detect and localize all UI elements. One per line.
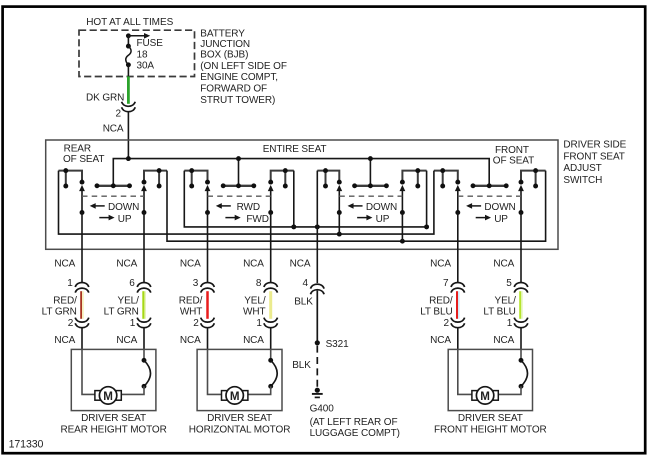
svg-text:RWD: RWD xyxy=(237,202,260,213)
wire NCA to switch xyxy=(127,112,129,159)
fuse label xyxy=(137,38,164,71)
svg-text:REAR HEIGHT MOTOR: REAR HEIGHT MOTOR xyxy=(60,424,166,435)
svg-text:6: 6 xyxy=(129,278,135,289)
svg-text:1: 1 xyxy=(507,318,513,329)
svg-text:18: 18 xyxy=(137,50,148,61)
svg-text:LT BLU: LT BLU xyxy=(483,306,515,317)
svg-text:LT GRN: LT GRN xyxy=(42,306,77,317)
battery junction box (BJB) dashed box xyxy=(79,30,195,76)
direction labels group3 xyxy=(348,202,398,225)
switch pole group3 right xyxy=(400,168,427,215)
diagram number 171330 xyxy=(9,438,44,450)
inline connector pin 2 xyxy=(116,102,136,120)
svg-text:HORIZONTAL MOTOR: HORIZONTAL MOTOR xyxy=(189,424,291,435)
switch name text xyxy=(563,140,626,186)
svg-text:1: 1 xyxy=(256,318,262,329)
svg-text:NCA: NCA xyxy=(116,335,137,346)
ground G400 xyxy=(312,388,323,398)
label REAR OF SEAT xyxy=(63,144,104,166)
svg-text:HOT AT ALL TIMES: HOT AT ALL TIMES xyxy=(86,17,173,28)
motor M2 internals xyxy=(208,349,278,404)
switch pole group2 left xyxy=(184,168,210,215)
svg-text:DRIVER SEAT: DRIVER SEAT xyxy=(207,413,272,424)
switch pole group2 right xyxy=(268,168,294,215)
bus: group1/4 right outers + entire-seat right wiper xyxy=(167,171,546,244)
direction labels group4 xyxy=(466,202,516,225)
svg-text:DK GRN: DK GRN xyxy=(86,92,124,103)
svg-text:M: M xyxy=(480,390,490,403)
svg-text:(ON LEFT SIDE OF: (ON LEFT SIDE OF xyxy=(200,61,287,72)
output wire pin 6 xyxy=(104,213,151,350)
svg-text:7: 7 xyxy=(443,278,449,289)
svg-text:BATTERY: BATTERY xyxy=(200,29,245,40)
svg-text:FORWARD OF: FORWARD OF xyxy=(200,83,267,94)
label FRONT OF SEAT xyxy=(493,145,534,167)
svg-text:NCA: NCA xyxy=(180,258,201,269)
wire DK GRN (green) xyxy=(127,76,130,103)
svg-text:LUGGAGE COMPT): LUGGAGE COMPT) xyxy=(310,428,400,439)
svg-text:DOWN: DOWN xyxy=(366,202,397,213)
svg-text:NCA: NCA xyxy=(243,258,264,269)
label NCA xyxy=(103,124,124,135)
svg-text:OF SEAT: OF SEAT xyxy=(493,156,534,167)
motor M2 label xyxy=(189,413,291,436)
svg-text:3: 3 xyxy=(193,278,199,289)
motor box M2 xyxy=(197,349,282,410)
output wire pin 5 xyxy=(483,213,527,350)
svg-text:2: 2 xyxy=(193,318,199,329)
svg-text:NCA: NCA xyxy=(290,258,311,269)
driver side front seat adjust switch box xyxy=(46,140,558,249)
mechanical coupling group3 xyxy=(339,195,402,197)
svg-text:BOX (BJB): BOX (BJB) xyxy=(200,49,248,60)
svg-text:LT GRN: LT GRN xyxy=(104,306,139,317)
svg-text:NCA: NCA xyxy=(493,258,514,269)
svg-text:JUNCTION: JUNCTION xyxy=(200,39,250,50)
fuse 18 30A xyxy=(126,44,131,68)
motor M3 label xyxy=(434,413,547,436)
svg-text:ADJUST: ADJUST xyxy=(563,163,601,174)
svg-text:FRONT HEIGHT MOTOR: FRONT HEIGHT MOTOR xyxy=(434,424,547,435)
label ENTIRE SEAT xyxy=(263,144,327,155)
wire: fuse to BJB bottom xyxy=(127,65,129,77)
svg-text:DOWN: DOWN xyxy=(484,202,515,213)
direction labels group1 xyxy=(90,202,140,225)
switch pole group1 left xyxy=(59,168,85,215)
svg-text:YEL/: YEL/ xyxy=(118,295,140,306)
svg-text:M: M xyxy=(103,390,113,403)
svg-text:DRIVER SEAT: DRIVER SEAT xyxy=(458,413,523,424)
switch pole group4 left xyxy=(434,168,461,215)
svg-text:FRONT SEAT: FRONT SEAT xyxy=(563,151,624,162)
svg-text:BLK: BLK xyxy=(294,296,313,307)
feed contact bar group2 xyxy=(221,183,257,188)
svg-text:30A: 30A xyxy=(137,60,155,71)
splice S321 xyxy=(315,339,349,350)
svg-text:DRIVER SEAT: DRIVER SEAT xyxy=(81,413,146,424)
label HOT AT ALL TIMES xyxy=(86,17,173,28)
switch pole group1 right xyxy=(141,168,167,215)
svg-text:FRONT: FRONT xyxy=(495,145,529,156)
svg-text:NCA: NCA xyxy=(430,258,451,269)
svg-text:G400: G400 xyxy=(310,404,335,415)
svg-text:1: 1 xyxy=(130,318,136,329)
svg-text:S321: S321 xyxy=(326,339,349,350)
motor M3 internals xyxy=(458,349,528,404)
svg-text:2: 2 xyxy=(68,318,74,329)
svg-text:2: 2 xyxy=(116,109,122,120)
node: hot feed tap with arrow xyxy=(126,33,150,46)
ground wire pin 4 BLK xyxy=(290,258,324,340)
svg-text:FUSE: FUSE xyxy=(137,38,164,49)
svg-text:NCA: NCA xyxy=(54,335,75,346)
switch pole group4 right xyxy=(518,168,546,215)
svg-text:STRUT TOWER): STRUT TOWER) xyxy=(200,95,275,106)
svg-text:YEL/: YEL/ xyxy=(495,295,517,306)
svg-text:LT BLU: LT BLU xyxy=(420,306,452,317)
svg-text:NCA: NCA xyxy=(116,258,137,269)
wire BLK to ground (dashed) xyxy=(292,346,317,388)
feed contact bar group3 xyxy=(352,183,389,188)
svg-text:2: 2 xyxy=(444,318,450,329)
svg-text:NCA: NCA xyxy=(243,335,264,346)
svg-text:(AT LEFT REAR OF: (AT LEFT REAR OF xyxy=(310,417,398,428)
wire: entire-seat left wiper to bus xyxy=(338,213,340,235)
svg-text:NCA: NCA xyxy=(430,335,451,346)
bus: ground rail xyxy=(184,171,429,230)
direction labels group2 xyxy=(216,202,269,225)
svg-text:ENGINE COMPT,: ENGINE COMPT, xyxy=(200,72,278,83)
svg-text:171330: 171330 xyxy=(9,438,44,450)
svg-text:M: M xyxy=(230,390,240,403)
svg-text:YEL/: YEL/ xyxy=(244,295,266,306)
output wire pin 1 xyxy=(42,213,89,350)
svg-text:OF SEAT: OF SEAT xyxy=(63,154,104,165)
wire: ground drop from switch xyxy=(316,171,318,283)
svg-text:REAR: REAR xyxy=(64,144,91,155)
svg-text:NCA: NCA xyxy=(493,335,514,346)
svg-text:NCA: NCA xyxy=(54,258,75,269)
svg-text:DOWN: DOWN xyxy=(108,202,139,213)
svg-text:UP: UP xyxy=(118,214,132,225)
output wire pin 8 xyxy=(243,213,277,350)
svg-text:UP: UP xyxy=(494,214,508,225)
label DK GRN xyxy=(86,92,124,103)
bus: group1/4 left outers + entire-seat left wiper xyxy=(59,171,434,237)
svg-text:1: 1 xyxy=(67,278,73,289)
svg-text:NCA: NCA xyxy=(103,124,124,135)
svg-text:WHT: WHT xyxy=(180,306,202,317)
mechanical coupling group1 xyxy=(82,195,144,197)
svg-text:WHT: WHT xyxy=(243,306,265,317)
BJB note text xyxy=(200,29,287,106)
svg-text:DRIVER SIDE: DRIVER SIDE xyxy=(563,140,626,151)
svg-text:5: 5 xyxy=(506,278,512,289)
svg-text:RED/: RED/ xyxy=(179,295,203,306)
svg-text:ENTIRE SEAT: ENTIRE SEAT xyxy=(263,144,327,155)
output wire pin 7 xyxy=(420,213,464,350)
motor M1 label xyxy=(60,413,166,436)
feed contact bar group1 xyxy=(95,183,132,188)
motor box M3 xyxy=(448,349,532,410)
svg-text:NCA: NCA xyxy=(180,335,201,346)
mechanical coupling group2 xyxy=(208,195,271,197)
mechanical coupling group4 xyxy=(458,195,521,197)
svg-text:RED/: RED/ xyxy=(53,295,77,306)
ground labels xyxy=(310,404,400,440)
wire: entire-seat right wiper to bus xyxy=(401,213,403,242)
svg-text:UP: UP xyxy=(376,214,390,225)
svg-text:FWD: FWD xyxy=(246,214,268,225)
motor box M1 xyxy=(71,349,156,410)
svg-text:SWITCH: SWITCH xyxy=(563,175,602,186)
output wire pin 3 xyxy=(179,213,215,350)
svg-text:BLK: BLK xyxy=(292,360,311,371)
svg-text:RED/: RED/ xyxy=(429,295,453,306)
svg-text:8: 8 xyxy=(256,278,262,289)
switch pole group3 left xyxy=(317,168,342,215)
feed contact bar group4 xyxy=(471,183,509,188)
svg-text:4: 4 xyxy=(303,278,309,289)
wire: battery feed rail inside switch xyxy=(113,156,489,186)
motor M1 internals xyxy=(82,349,151,404)
